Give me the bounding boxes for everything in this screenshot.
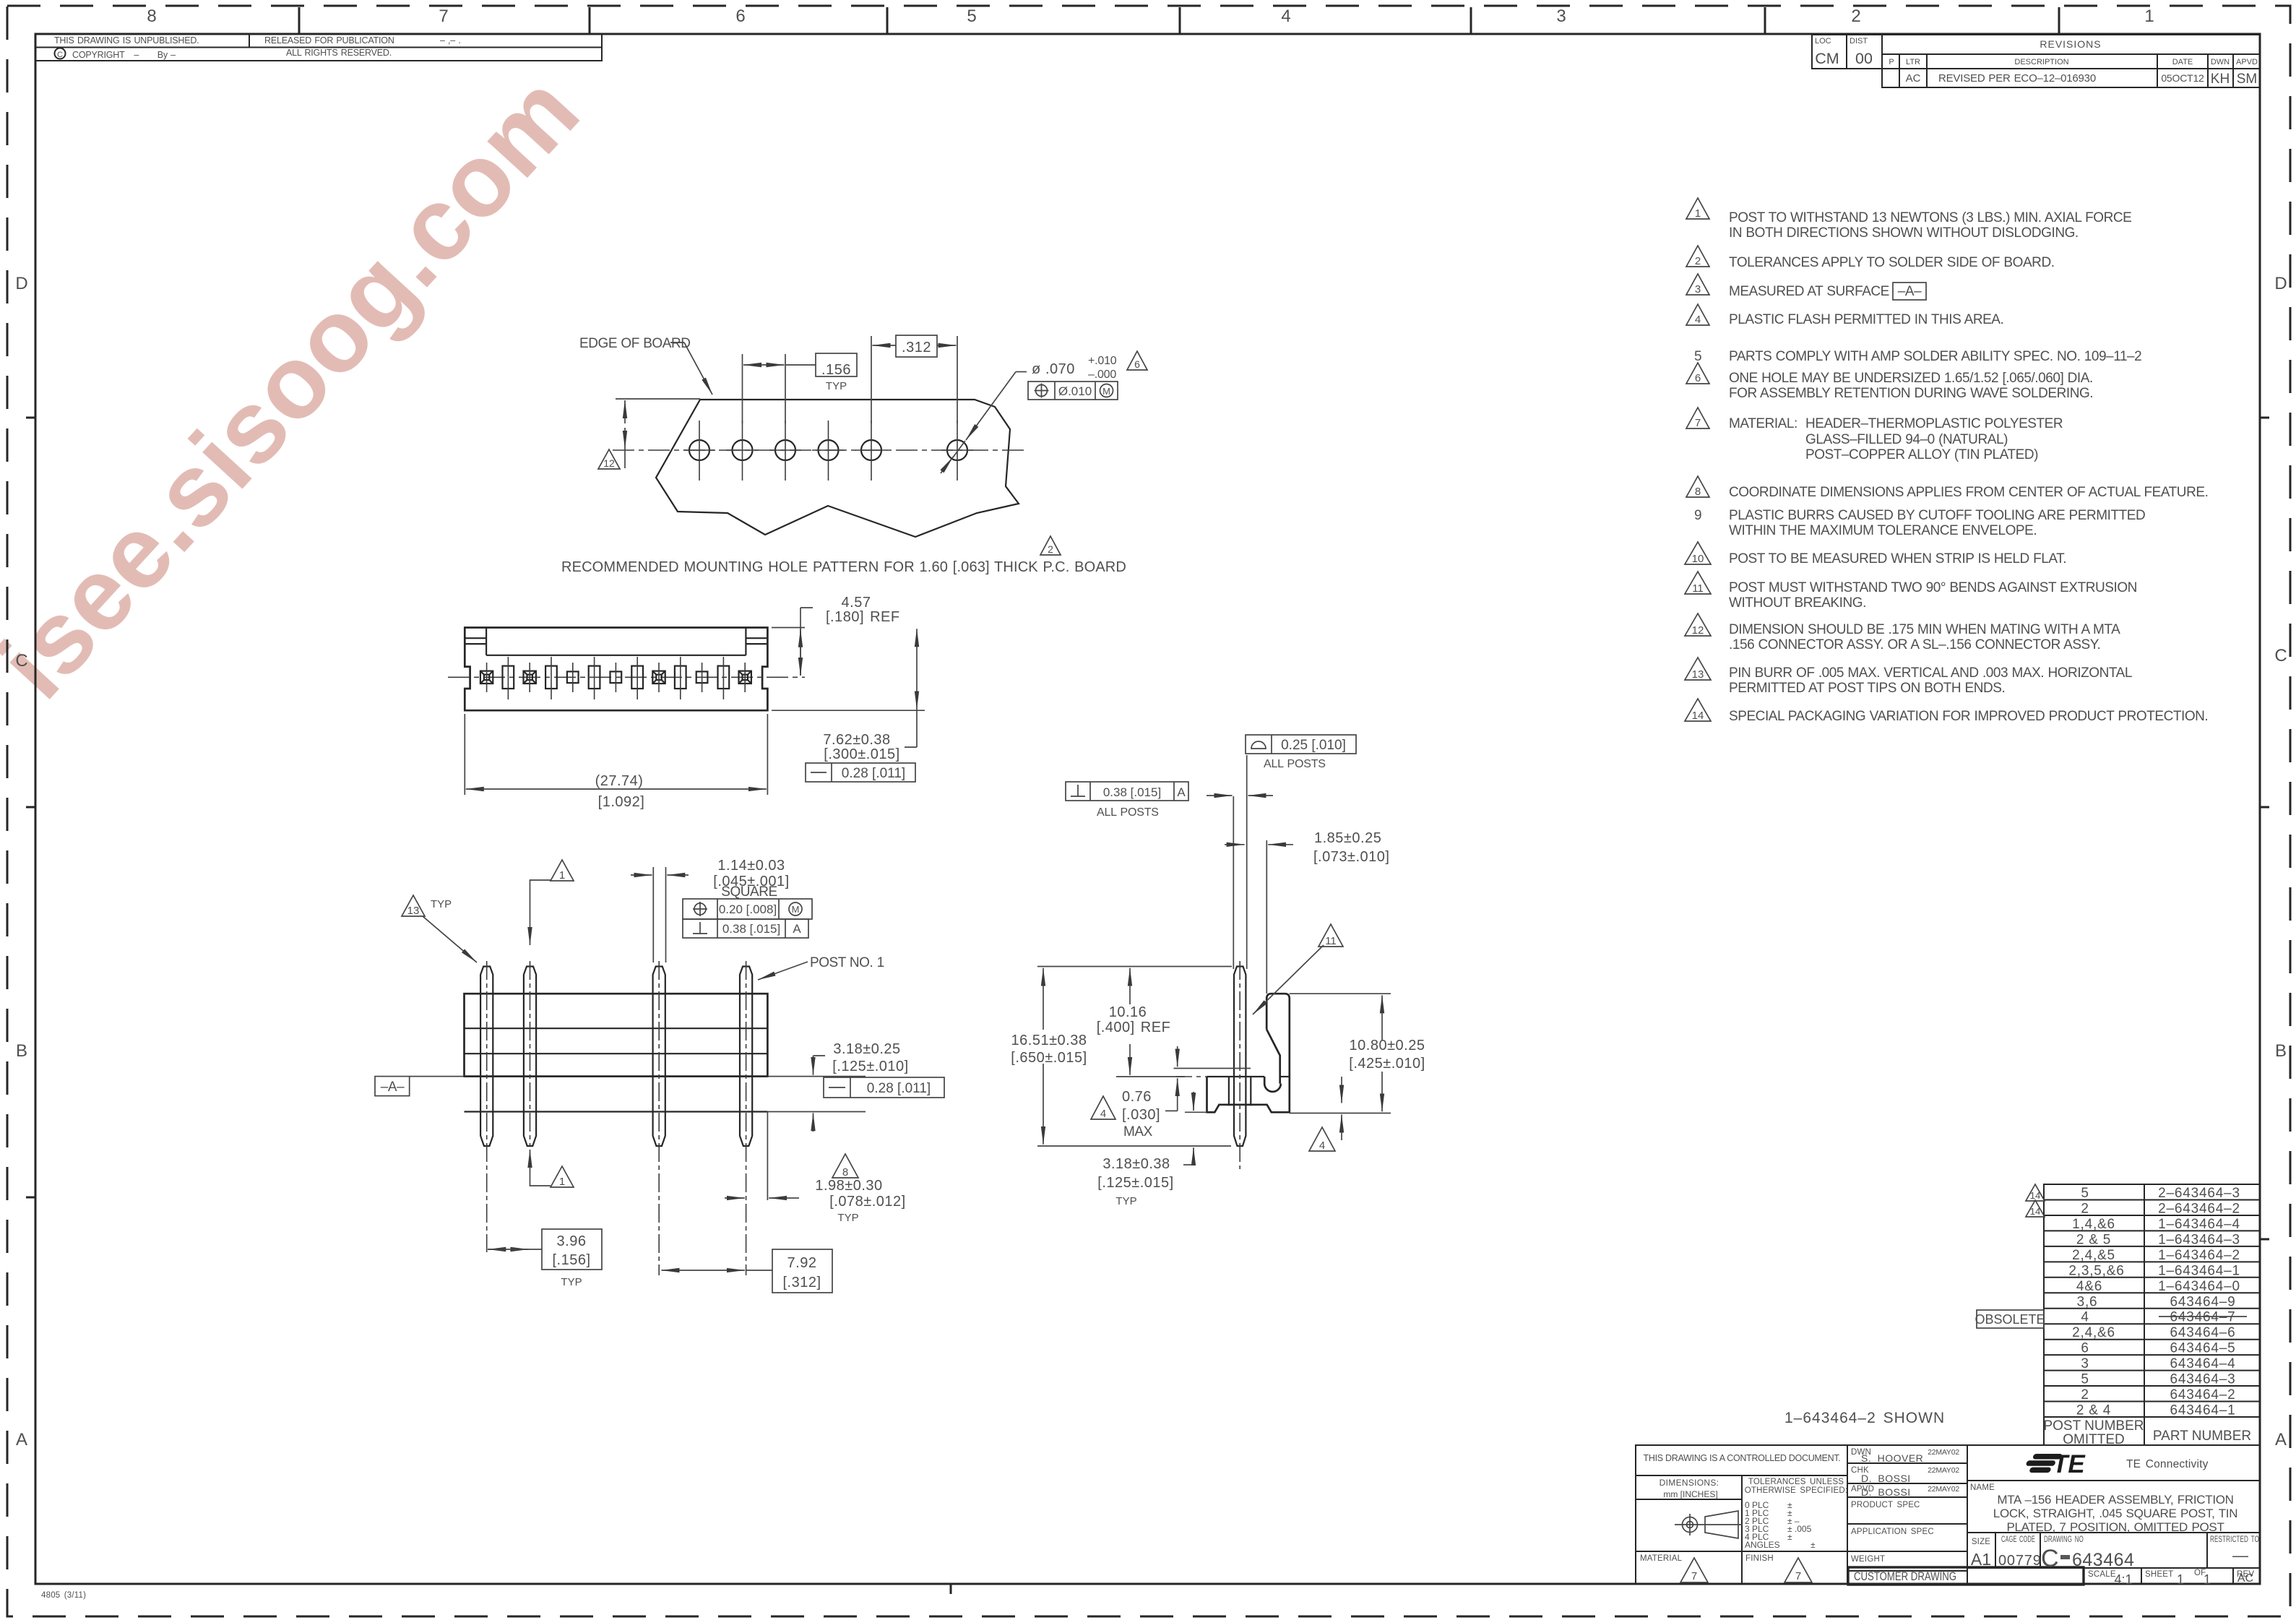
- svg-text:2,4,&5: 2,4,&5: [2072, 1248, 2115, 1263]
- svg-text:05OCT12: 05OCT12: [2161, 72, 2204, 84]
- svg-text:TYP: TYP: [1115, 1195, 1136, 1207]
- svg-text:– ,– .: – ,– .: [440, 35, 461, 46]
- svg-text:2 & 4: 2 & 4: [2076, 1403, 2111, 1418]
- svg-text:4805 (3/11): 4805 (3/11): [41, 1591, 86, 1600]
- svg-text:[.030]: [.030]: [1122, 1107, 1160, 1123]
- svg-text:1: 1: [559, 869, 565, 882]
- note 8 triangle: [1686, 476, 1709, 498]
- svg-text:B: B: [16, 1041, 27, 1061]
- dimension (27.74) overall: [464, 714, 465, 795]
- svg-text:10.80±0.25: 10.80±0.25: [1350, 1038, 1425, 1054]
- zone ticks left: [26, 418, 35, 1197]
- svg-text:DRAWING NO: DRAWING NO: [2044, 1535, 2084, 1544]
- housing rib line 2: [465, 1053, 768, 1054]
- post 3 centerline: [658, 961, 660, 1275]
- svg-text:CAGE CODE: CAGE CODE: [2001, 1535, 2035, 1544]
- svg-text:SPECIAL PACKAGING VARIATION: SPECIAL PACKAGING VARIATION FOR IMPROVED…: [1729, 709, 2208, 724]
- svg-text:[.312]: [.312]: [782, 1275, 821, 1291]
- note 14 flag row 1: [2026, 1184, 2045, 1201]
- svg-text:DIMENSIONS:: DIMENSIONS:: [1660, 1478, 1719, 1488]
- watermark isee.sisoog.com: [0, 53, 600, 720]
- svg-text:3.18±0.38: 3.18±0.38: [1102, 1156, 1170, 1172]
- svg-text:TYP: TYP: [837, 1212, 858, 1224]
- svg-text:1–643464–1: 1–643464–1: [2158, 1263, 2240, 1278]
- slot opening: [545, 657, 557, 699]
- dimension 7.92: [662, 1270, 680, 1271]
- dimension 10.80: [1290, 993, 1391, 994]
- svg-text:7: 7: [1795, 1570, 1801, 1582]
- table rows: [2068, 1186, 2240, 1418]
- svg-text:13: 13: [407, 905, 420, 917]
- svg-text:ALL POSTS: ALL POSTS: [1097, 806, 1159, 819]
- svg-text:POST NUMBER: POST NUMBER: [2043, 1418, 2144, 1434]
- svg-text:RECOMMENDED MOUNTING HOLE P: RECOMMENDED MOUNTING HOLE PATTERN FOR 1.…: [561, 559, 1126, 575]
- svg-text:5: 5: [2081, 1186, 2089, 1201]
- svg-text:M: M: [1102, 386, 1110, 397]
- svg-text:1.98±0.30: 1.98±0.30: [815, 1178, 882, 1194]
- svg-text:0.38 [.015]: 0.38 [.015]: [722, 922, 780, 936]
- svg-text:AC: AC: [2237, 1572, 2253, 1585]
- svg-text:MATERIAL: MATERIAL: [1640, 1554, 1683, 1563]
- svg-text:M: M: [792, 904, 800, 915]
- svg-text:PIN BURR OF .005 MAX. VER: PIN BURR OF .005 MAX. VERTICAL AND .003 …: [1729, 665, 2132, 681]
- svg-text:EDGE OF BOARD: EDGE OF BOARD: [579, 336, 691, 351]
- svg-text:LOC: LOC: [1815, 37, 1831, 46]
- material note 7 triangle: [1680, 1558, 1708, 1582]
- hole position feature control frame: [1028, 382, 1118, 400]
- pc board outline (broken-out section): [656, 400, 1019, 537]
- dimension 7.62 +/-0.38: [772, 710, 925, 711]
- table grid: [2044, 1184, 2260, 1445]
- svg-text:D. BOSSI: D. BOSSI: [1861, 1486, 1911, 1498]
- svg-text:4: 4: [1281, 7, 1290, 26]
- svg-text:12: 12: [603, 457, 615, 469]
- svg-text:16.51±0.38: 16.51±0.38: [1011, 1033, 1087, 1048]
- note 6 flag triangle: [1127, 351, 1147, 370]
- svg-text:PLATED, 7 POSITION, OMITTED: PLATED, 7 POSITION, OMITTED POST: [2006, 1520, 2224, 1534]
- svg-text:2,3,5,&6: 2,3,5,&6: [2068, 1263, 2124, 1278]
- svg-text:2–643464–3: 2–643464–3: [2158, 1186, 2240, 1201]
- svg-text:22MAY02: 22MAY02: [1928, 1485, 1959, 1494]
- svg-text:643464–4: 643464–4: [2170, 1356, 2236, 1371]
- svg-text:RESTRICTED TO: RESTRICTED TO: [2210, 1535, 2259, 1544]
- svg-text:REVISED PER ECO–12–016930: REVISED PER ECO–12–016930: [1938, 72, 2096, 85]
- third angle projection symbol: [1675, 1511, 1743, 1538]
- svg-text:POST NO. 1: POST NO. 1: [810, 955, 884, 970]
- note 3 datum box: [1893, 283, 1926, 300]
- post 1 square (present): [739, 663, 751, 692]
- svg-text:DIST: DIST: [1850, 37, 1868, 46]
- svg-text:1–643464–3: 1–643464–3: [2158, 1232, 2240, 1247]
- svg-text:FINISH: FINISH: [1745, 1554, 1774, 1563]
- svg-text:C: C: [2041, 1545, 2059, 1572]
- note 1 flag bottom with leader: [551, 1166, 574, 1188]
- flatness feature control frame: [806, 763, 915, 782]
- flatness feature control frame: [824, 1077, 944, 1098]
- svg-text:2: 2: [2081, 1202, 2089, 1217]
- svg-text:RELEASED FOR PUBLICATION: RELEASED FOR PUBLICATION: [264, 35, 394, 46]
- svg-text:WITHIN THE MAXIMUM TOLERANC: WITHIN THE MAXIMUM TOLERANCE ENVELOPE.: [1729, 523, 2037, 538]
- hole 3: [769, 421, 801, 481]
- svg-text:ALL RIGHTS RESERVED.: ALL RIGHTS RESERVED.: [286, 48, 392, 58]
- base top extension left: [1116, 1076, 1185, 1077]
- svg-text:22MAY02: 22MAY02: [1928, 1466, 1959, 1475]
- svg-text:643464–9: 643464–9: [2170, 1294, 2236, 1309]
- zone ticks right: [2260, 418, 2269, 1239]
- svg-text:A1: A1: [1971, 1550, 1991, 1569]
- svg-text:.070: .070: [1045, 361, 1075, 377]
- svg-text:KH: KH: [2211, 72, 2230, 87]
- svg-text:FOR ASSEMBLY RETENTION DURI: FOR ASSEMBLY RETENTION DURING WAVE SOLDE…: [1729, 386, 2093, 401]
- post edge extension lines: [1233, 796, 1234, 969]
- svg-text:10: 10: [1692, 553, 1704, 565]
- svg-text:7.62±0.38: 7.62±0.38: [823, 732, 890, 748]
- svg-text:ONE HOLE MAY BE UNDERSIZED: ONE HOLE MAY BE UNDERSIZED 1.65/1.52 [.0…: [1729, 371, 2093, 386]
- slot opening: [589, 657, 600, 699]
- dimension 1.14 square post: [652, 867, 654, 962]
- obsolete marker box: [1977, 1310, 2044, 1328]
- svg-text:1: 1: [2177, 1572, 2184, 1587]
- svg-text:–A–: –A–: [381, 1080, 405, 1095]
- svg-text:[.425±.010]: [.425±.010]: [1349, 1056, 1425, 1072]
- strikethrough obsolete part number: [2159, 1316, 2247, 1317]
- svg-text:0.76: 0.76: [1122, 1089, 1152, 1105]
- svg-text:A: A: [16, 1430, 27, 1449]
- svg-text:1–643464–4: 1–643464–4: [2158, 1217, 2240, 1232]
- post 7 square (present): [480, 663, 493, 692]
- post (side): [1234, 967, 1246, 1147]
- svg-text:TYP: TYP: [431, 898, 452, 910]
- perpendicularity feature control frame: [683, 919, 808, 938]
- svg-text:643464–1: 643464–1: [2170, 1403, 2236, 1418]
- svg-text:2,4,&6: 2,4,&6: [2072, 1325, 2115, 1340]
- svg-text:PLASTIC FLASH PERMITTED IN: PLASTIC FLASH PERMITTED IN THIS AREA.: [1729, 312, 2003, 327]
- svg-text:SIZE: SIZE: [1972, 1538, 1990, 1546]
- svg-text:SM: SM: [2237, 72, 2258, 87]
- svg-text:A: A: [2275, 1430, 2287, 1449]
- svg-text:WITHOUT BREAKING.: WITHOUT BREAKING.: [1729, 595, 1866, 611]
- svg-text:.156: .156: [821, 362, 851, 378]
- hole 5: [855, 421, 887, 481]
- svg-text:[.650±.015]: [.650±.015]: [1011, 1050, 1087, 1066]
- svg-text:1: 1: [559, 1176, 565, 1188]
- svg-text:[.125±.015]: [.125±.015]: [1097, 1175, 1173, 1191]
- svg-text:1.14±0.03: 1.14±0.03: [717, 858, 785, 874]
- svg-text:C: C: [15, 651, 27, 671]
- dimension 3.96 TYP: [488, 1249, 506, 1250]
- svg-text:[.400] REF: [.400] REF: [1097, 1020, 1171, 1035]
- svg-text:2–643464–2: 2–643464–2: [2158, 1202, 2240, 1217]
- svg-text:CM: CM: [1815, 50, 1839, 67]
- slot opening: [631, 657, 643, 699]
- leader to hole 6: [1016, 371, 1027, 373]
- dimension .312: [871, 336, 872, 423]
- note 2 flag under board: [1040, 536, 1061, 555]
- post 7: [480, 967, 493, 1147]
- svg-text:CUSTOMER DRAWING: CUSTOMER DRAWING: [1854, 1569, 1956, 1583]
- svg-text:643464–6: 643464–6: [2170, 1325, 2236, 1340]
- svg-text:14: 14: [1692, 710, 1704, 722]
- lock slot round bottom: [1264, 1077, 1281, 1092]
- svg-text:TE: TE: [2053, 1450, 2086, 1478]
- housing profile outer: [1207, 994, 1290, 1112]
- svg-text:mm [INCHES]: mm [INCHES]: [1663, 1489, 1717, 1499]
- svg-text:D. BOSSI: D. BOSSI: [1861, 1473, 1911, 1484]
- svg-text:ANGLES: ANGLES: [1745, 1540, 1780, 1550]
- housing base bottom edge: [465, 1111, 768, 1112]
- dimension .156 TYP: [742, 354, 743, 423]
- svg-text:ø: ø: [1032, 361, 1041, 377]
- svg-text:TYP: TYP: [826, 380, 847, 392]
- svg-text:PERMITTED AT POST TIPS ON: PERMITTED AT POST TIPS ON BOTH ENDS.: [1729, 681, 2005, 696]
- post 5 hole (omitted): [567, 663, 579, 692]
- svg-text:POST TO BE MEASURED WHEN: POST TO BE MEASURED WHEN STRIP IS HELD F…: [1729, 551, 2066, 566]
- svg-text:MATERIAL:: MATERIAL:: [1729, 416, 1797, 431]
- svg-text:±: ±: [1787, 1532, 1792, 1542]
- svg-text:TOLERANCES APPLY TO SOLDER: TOLERANCES APPLY TO SOLDER SIDE OF BOARD…: [1729, 255, 2055, 270]
- svg-text:9: 9: [1694, 508, 1701, 523]
- svg-text:PART NUMBER: PART NUMBER: [2153, 1429, 2251, 1444]
- note 11 flag with leader: [1319, 924, 1343, 947]
- svg-text:LTR: LTR: [1906, 58, 1920, 66]
- svg-text:643464–5: 643464–5: [2170, 1341, 2236, 1356]
- post 6 centerline: [530, 961, 531, 1146]
- slot opening: [718, 657, 730, 699]
- datum -A- flag: [375, 1077, 410, 1096]
- slot opening: [675, 657, 686, 699]
- svg-text:[.078±.012]: [.078±.012]: [829, 1194, 905, 1210]
- svg-text:6: 6: [735, 7, 745, 26]
- svg-text:643464–2: 643464–2: [2170, 1387, 2236, 1403]
- svg-text:D: D: [2274, 274, 2287, 293]
- note 11 triangle: [1685, 572, 1711, 595]
- svg-text:SQUARE: SQUARE: [721, 884, 777, 900]
- svg-text:TE Connectivity: TE Connectivity: [2126, 1458, 2209, 1470]
- note 12 flag + edge distance dimension: [616, 398, 700, 400]
- svg-text:4: 4: [2081, 1310, 2089, 1325]
- svg-text:4:1: 4:1: [2114, 1572, 2132, 1587]
- svg-text:OTHERWISE SPECIFIED:: OTHERWISE SPECIFIED:: [1745, 1486, 1848, 1495]
- TE logo: [2024, 1454, 2063, 1473]
- hole 6: [941, 421, 973, 481]
- post 7 centerline: [486, 961, 488, 1252]
- svg-text:.312: .312: [902, 340, 931, 356]
- svg-text:[.073±.010]: [.073±.010]: [1313, 849, 1389, 865]
- note 1 triangle: [1686, 198, 1709, 220]
- post 1: [740, 967, 752, 1147]
- slot opening: [503, 657, 514, 699]
- post 3 square (present): [652, 663, 665, 692]
- dimension 16.51 overall: [1043, 968, 1044, 1030]
- note 14 flag row 2: [2026, 1200, 2045, 1217]
- perpendicularity feature control frame all posts: [1066, 782, 1188, 801]
- svg-text:.156 CONNECTOR ASSY. OR A: .156 CONNECTOR ASSY. OR A SL–.156 CONNEC…: [1729, 637, 2100, 652]
- note 13 triangle: [1685, 658, 1711, 681]
- position feature control frame: [683, 899, 812, 919]
- svg-text:[.180] REF: [.180] REF: [826, 609, 900, 625]
- svg-text:+.010: +.010: [1088, 355, 1117, 367]
- svg-text:[.156]: [.156]: [552, 1252, 590, 1268]
- svg-text:1–643464–2: 1–643464–2: [2158, 1248, 2240, 1263]
- svg-text:POST TO WITHSTAND 13 NEWTO: POST TO WITHSTAND 13 NEWTONS (3 LBS.) MI…: [1729, 210, 2131, 225]
- post centerline: [1239, 961, 1240, 1169]
- svg-text:6: 6: [2081, 1341, 2089, 1356]
- svg-text:11: 11: [1692, 582, 1704, 595]
- svg-text:C: C: [2274, 646, 2287, 665]
- hole 4: [812, 421, 845, 481]
- svg-text:4: 4: [1319, 1139, 1325, 1152]
- svg-text:7: 7: [439, 7, 448, 26]
- base top edge segments: [1207, 1076, 1229, 1077]
- svg-text:7: 7: [1691, 1570, 1697, 1582]
- svg-text:TOLERANCES UNLESS: TOLERANCES UNLESS: [1748, 1478, 1844, 1486]
- svg-text:2 & 5: 2 & 5: [2076, 1232, 2111, 1247]
- svg-text:THIS DRAWING IS A CONTROLL: THIS DRAWING IS A CONTROLLED DOCUMENT.: [1644, 1453, 1841, 1463]
- extension line post tip top: [1037, 966, 1232, 968]
- svg-text:12: 12: [1692, 624, 1704, 637]
- post pocket walls: [1228, 1077, 1230, 1106]
- left end wall: [465, 628, 486, 655]
- seating plane line across housing: [465, 1075, 768, 1077]
- flash limit line: [1174, 1068, 1251, 1069]
- svg-text:1.85±0.25: 1.85±0.25: [1314, 830, 1381, 846]
- svg-text:[.300±.015]: [.300±.015]: [824, 746, 899, 762]
- svg-text:11: 11: [1325, 935, 1337, 947]
- svg-text:14: 14: [2030, 1206, 2040, 1217]
- title block frame: [1636, 1445, 2260, 1584]
- note 13 flag with leader: [402, 895, 425, 917]
- note 1 flag top with leader: [551, 860, 574, 882]
- svg-text:3: 3: [1695, 283, 1701, 296]
- zone ticks bottom: [950, 1584, 952, 1594]
- post 3: [653, 967, 665, 1147]
- svg-text:PRODUCT SPEC: PRODUCT SPEC: [1851, 1501, 1920, 1509]
- extension line post tip bottom: [1037, 1145, 1231, 1147]
- svg-text:TYP: TYP: [561, 1276, 582, 1288]
- svg-text:–.000: –.000: [1088, 369, 1116, 381]
- edge of board leader: [670, 342, 684, 343]
- note 4 flag lower right: [1309, 1127, 1335, 1152]
- dimension 0.76 MAX with note 4 flag: [1177, 1046, 1178, 1067]
- hole 2: [726, 421, 759, 481]
- row centerline: [448, 676, 805, 678]
- zone letters left: [15, 274, 27, 1449]
- body edge extension for 1.98: [767, 1112, 768, 1201]
- svg-text:(27.74): (27.74): [595, 773, 644, 789]
- svg-text:[.125±.010]: [.125±.010]: [832, 1059, 908, 1074]
- dimension 10.16 REF: [1129, 968, 1131, 1004]
- svg-text:4: 4: [1695, 314, 1701, 326]
- svg-text:Ø.010: Ø.010: [1058, 384, 1092, 398]
- svg-text:isee.sisoog.com: isee.sisoog.com: [0, 53, 600, 720]
- svg-text:DWN: DWN: [2211, 58, 2230, 66]
- svg-text:COORDINATE DIMENSIONS APPLIE: COORDINATE DIMENSIONS APPLIES FROM CENTE…: [1729, 485, 2208, 500]
- housing body: [465, 994, 768, 1076]
- svg-text:6: 6: [1695, 372, 1701, 384]
- svg-text:3.96: 3.96: [557, 1233, 587, 1249]
- note 14 triangle: [1685, 699, 1711, 722]
- note 10 triangle: [1685, 542, 1711, 565]
- zone numbers top: [147, 7, 2154, 26]
- svg-text:MEASURED AT SURFACE: MEASURED AT SURFACE: [1729, 284, 1889, 299]
- svg-text:4: 4: [1100, 1108, 1106, 1120]
- svg-text:0.38 [.015]: 0.38 [.015]: [1103, 785, 1161, 799]
- svg-text:3: 3: [1556, 7, 1566, 26]
- svg-text:DESCRIPTION: DESCRIPTION: [2014, 58, 2068, 66]
- finish note 7 triangle: [1784, 1558, 1812, 1582]
- svg-text:IN BOTH DIRECTIONS SHOWN W: IN BOTH DIRECTIONS SHOWN WITHOUT DISLODG…: [1729, 225, 2079, 241]
- svg-text:[1.092]: [1.092]: [598, 794, 645, 810]
- svg-text:13: 13: [1692, 668, 1704, 681]
- svg-text:APPLICATION SPEC: APPLICATION SPEC: [1851, 1528, 1934, 1536]
- post 4 hole (omitted): [610, 663, 622, 692]
- note 12 triangle: [1685, 613, 1711, 637]
- svg-text:8: 8: [147, 7, 156, 26]
- svg-text:HEADER–THERMOPLASTIC POLYESTE: HEADER–THERMOPLASTIC POLYESTER: [1805, 416, 2063, 431]
- svg-text:C: C: [57, 51, 63, 59]
- svg-text:643464–7: 643464–7: [2170, 1310, 2236, 1325]
- svg-text:POST MUST WITHSTAND TWO 90: POST MUST WITHSTAND TWO 90° BENDS AGAINS…: [1729, 580, 2137, 595]
- svg-text:APVD: APVD: [2236, 58, 2258, 66]
- revisions block: LOC/DIST cells and revision table: [1812, 35, 2260, 87]
- svg-text:—: —: [2232, 1546, 2248, 1564]
- profile of surface feature control frame: [1246, 735, 1356, 754]
- note 4 triangle: [1686, 304, 1709, 326]
- customer drawing banner: [1848, 1567, 2084, 1585]
- zone ticks top: [299, 7, 2059, 34]
- svg-text:ALL POSTS: ALL POSTS: [1264, 758, 1326, 770]
- svg-text:SHEET: SHEET: [2145, 1570, 2173, 1579]
- svg-text:B: B: [2275, 1041, 2287, 1061]
- dimension 3.18 TYP bottom: [1193, 1092, 1194, 1111]
- svg-text:2: 2: [2081, 1387, 2089, 1403]
- 0.38 dimension arrows: [1207, 795, 1233, 796]
- svg-text:NAME: NAME: [1970, 1483, 1995, 1492]
- svg-text:MTA –156 HEADER ASSEMBLY,: MTA –156 HEADER ASSEMBLY, FRICTION: [1997, 1493, 2233, 1507]
- svg-text:0.25 [.010]: 0.25 [.010]: [1281, 738, 1346, 753]
- dimension 4.57 [.180] REF: [772, 627, 805, 629]
- svg-text:AC: AC: [1906, 72, 1921, 85]
- svg-text:OBSOLETE: OBSOLETE: [1975, 1312, 2045, 1327]
- svg-text:3.18±0.25: 3.18±0.25: [833, 1041, 900, 1057]
- post 1 centerline: [746, 961, 747, 1275]
- note 3 triangle: [1686, 274, 1709, 296]
- svg-text:2: 2: [1048, 543, 1053, 555]
- svg-text:00779: 00779: [1998, 1553, 2042, 1569]
- svg-text:00: 00: [1855, 50, 1873, 67]
- svg-text:0.28 [.011]: 0.28 [.011]: [842, 766, 905, 781]
- svg-text:THIS DRAWING IS UNPUBLISHED: THIS DRAWING IS UNPUBLISHED.: [54, 35, 199, 46]
- unpublished / copyright block: [35, 34, 602, 61]
- svg-text:POST–COPPER ALLOY (TIN PLAT: POST–COPPER ALLOY (TIN PLATED): [1805, 447, 2038, 462]
- svg-text:1: 1: [2144, 7, 2154, 26]
- svg-text:4.57: 4.57: [842, 595, 871, 611]
- svg-text:A: A: [793, 922, 801, 936]
- note 6 triangle: [1686, 363, 1709, 384]
- friction lock inner wall: [1266, 1030, 1280, 1084]
- dimension 1.85: [1225, 844, 1245, 845]
- svg-text:1–643464–0: 1–643464–0: [2158, 1279, 2240, 1294]
- svg-text:REVISIONS: REVISIONS: [2040, 38, 2101, 50]
- svg-text:7: 7: [1695, 417, 1701, 429]
- svg-text:1,4,&6: 1,4,&6: [2072, 1217, 2115, 1232]
- svg-text:DIMENSION SHOULD BE .175 M: DIMENSION SHOULD BE .175 MIN WHEN MATING…: [1729, 622, 2120, 637]
- svg-text:6: 6: [1134, 358, 1140, 370]
- hole 1: [683, 421, 715, 481]
- svg-text:MAX: MAX: [1123, 1124, 1153, 1139]
- svg-text:GLASS–FILLED 94–0 (NATURAL): GLASS–FILLED 94–0 (NATURAL): [1805, 432, 2008, 447]
- header body outline with side notches: [465, 628, 767, 711]
